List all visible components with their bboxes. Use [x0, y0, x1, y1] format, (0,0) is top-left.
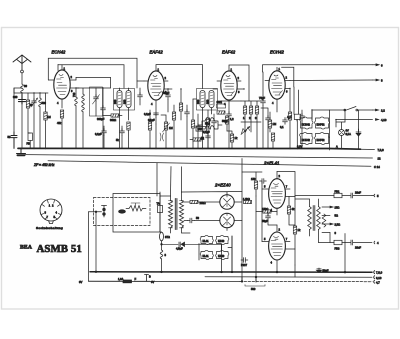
capacitor P137	[241, 258, 248, 263]
tone pot	[322, 214, 326, 227]
svg-text:EL41: EL41	[203, 239, 210, 243]
svg-text:1M: 1M	[273, 122, 277, 126]
svg-text:0,1µF: 0,1µF	[95, 132, 102, 136]
heater cell row2 EAF42	[315, 132, 330, 144]
svg-text:6V: 6V	[346, 129, 349, 133]
resistor R8 box	[217, 104, 226, 108]
capacitor C3	[11, 132, 17, 148]
resistor 1.2k	[244, 200, 252, 203]
capacitor C11	[185, 110, 190, 117]
V8 pins	[262, 225, 295, 272]
wire drop V3 region	[213, 89, 263, 148]
rail to 12	[25, 155, 373, 158]
oscillator box	[90, 87, 103, 116]
transformer top connections	[160, 192, 190, 233]
heater cell EL41 row1	[200, 235, 213, 244]
svg-text:EAF42: EAF42	[317, 122, 325, 126]
svg-text:50µF: 50µF	[262, 219, 268, 223]
svg-text:40k: 40k	[57, 121, 62, 125]
variable capacitor C4	[93, 95, 100, 105]
long wire to terminal 6	[263, 65, 373, 97]
svg-text:500: 500	[251, 287, 256, 291]
resistor R7	[179, 103, 182, 111]
coil L2	[39, 98, 42, 107]
thermistor	[158, 206, 163, 213]
svg-text:EAF42: EAF42	[150, 50, 164, 55]
ground bus top section	[18, 147, 361, 150]
heater cell row2 ECH42	[300, 132, 313, 144]
speaker symbol	[102, 206, 107, 218]
capacitor 50uF	[266, 214, 271, 221]
resistor R4	[111, 114, 119, 117]
resistor 20k	[190, 200, 198, 203]
svg-text:TA: TA	[157, 202, 160, 206]
wire drops misc	[156, 113, 166, 148]
dial lamp	[339, 130, 345, 136]
tube socket diagram	[40, 199, 62, 224]
svg-text:ECH42: ECH42	[270, 50, 285, 55]
svg-text:0,1µF: 0,1µF	[144, 112, 151, 116]
svg-text:4,10: 4,10	[381, 118, 387, 122]
resistor FR box	[28, 133, 32, 141]
top loop wire y58.3	[48, 58, 137, 88]
svg-text:6V: 6V	[151, 280, 154, 284]
resistor R17	[268, 120, 271, 128]
resistor R20	[193, 138, 201, 141]
svg-text:FR2: FR2	[205, 122, 210, 126]
resistor R9	[217, 111, 225, 114]
svg-text:50µF: 50µF	[323, 269, 329, 273]
svg-text:0,1: 0,1	[280, 125, 284, 129]
grid box over V4	[277, 67, 294, 87]
IF transformer T1	[113, 89, 135, 111]
inner loop wire y64.4	[58, 64, 124, 88]
svg-text:150Ω: 150Ω	[262, 207, 268, 211]
heater cell EL41 row2	[200, 250, 213, 259]
coil L3 oscillator	[82, 94, 85, 112]
svg-text:2×EL41: 2×EL41	[263, 161, 279, 166]
capacitor 50nF	[188, 218, 195, 223]
AVC pot diagonal	[241, 127, 250, 135]
resistor 97ohm oval	[160, 232, 164, 241]
svg-text:1,2kΩ: 1,2kΩ	[243, 197, 250, 201]
svg-text:FR3: FR3	[335, 247, 340, 251]
field coil resistor zigzag	[126, 206, 146, 212]
svg-text:EAF42: EAF42	[222, 50, 236, 55]
svg-text:ECH42: ECH42	[52, 50, 67, 55]
tuning capacitor C2 with arrow	[31, 98, 38, 107]
choke coil 8	[161, 244, 163, 250]
svg-text:75pF: 75pF	[259, 96, 265, 100]
resistor R2	[44, 112, 47, 120]
resistor R10	[288, 112, 291, 120]
capacitor C9 750pF	[166, 93, 171, 100]
resistor R6	[172, 112, 175, 120]
volume potentiometer P1	[163, 122, 170, 148]
loop over V3	[229, 65, 249, 101]
AF coupling box	[294, 87, 299, 120]
svg-text:ASMB 51: ASMB 51	[37, 243, 82, 255]
pin digits V4	[272, 67, 288, 105]
capacitor C13	[227, 112, 232, 119]
antenna terminal	[21, 70, 24, 73]
rectifier tube V5 EZ40	[220, 195, 234, 209]
svg-text:750pF: 750pF	[162, 91, 170, 95]
vertical feed wires	[242, 172, 262, 282]
svg-text:1M: 1M	[169, 126, 173, 130]
svg-text:380: 380	[205, 99, 209, 104]
pin stubs V3	[217, 81, 244, 112]
svg-text:6W4: 6W4	[217, 100, 223, 104]
heater wiring verticals	[297, 110, 358, 150]
svg-text:150: 150	[251, 177, 256, 181]
tube V2 EAF42	[148, 71, 164, 100]
tube V1 ECH42	[54, 70, 70, 99]
B junction	[145, 275, 149, 282]
electrolytic 50uF on rail	[317, 268, 321, 272]
heater cell EZ40 row2	[216, 250, 229, 259]
svg-text:500: 500	[42, 101, 47, 105]
chassis ground symbol	[17, 148, 26, 153]
pin digits V3	[224, 68, 240, 107]
output tube V7 EL41	[269, 179, 286, 209]
rectifier plate links	[182, 192, 243, 231]
output tube V8 EL41	[269, 232, 286, 260]
rectifier wires	[184, 202, 242, 221]
capacitor C-ant	[19, 95, 26, 105]
svg-text:A: A	[336, 145, 338, 149]
svg-text:4,5µF: 4,5µF	[176, 247, 183, 251]
svg-text:20nF: 20nF	[355, 246, 361, 250]
svg-text:EZ40: EZ40	[218, 239, 225, 243]
svg-text:300pF: 300pF	[97, 117, 105, 121]
capacitor C10	[154, 111, 159, 118]
svg-text:FR1: FR1	[335, 190, 340, 194]
svg-text:7,8,0: 7,8,0	[378, 148, 385, 152]
resistor R13	[206, 118, 209, 126]
capacitor C5 300pF	[101, 106, 106, 113]
tube V4 ECH42	[269, 71, 285, 99]
capacitor C6 0.1uF	[102, 129, 107, 136]
pickup jack symbol	[160, 133, 164, 141]
svg-text:15Ω: 15Ω	[335, 206, 340, 210]
svg-text:5Ω: 5Ω	[335, 214, 338, 218]
resistor R14	[148, 122, 151, 130]
long wire to terminal 8	[290, 79, 373, 82]
svg-text:0V: 0V	[79, 280, 83, 284]
heater cell row1 ECH42	[300, 117, 313, 129]
resistor box GW	[196, 127, 207, 132]
antenna	[13, 55, 31, 70]
svg-text:Sockelschaltung: Sockelschaltung	[36, 226, 63, 230]
svg-text:0,1µF: 0,1µF	[148, 118, 155, 122]
coupling coil pair row2	[205, 126, 215, 129]
capacitor C14	[300, 114, 305, 121]
grid bus left segment	[13, 88, 15, 93]
svg-text:EL41: EL41	[203, 254, 210, 258]
resistor R12	[191, 120, 194, 128]
wire to terminal 4,10	[336, 119, 373, 121]
wire V1 anode right y77.4	[76, 77, 111, 88]
pin digits V2	[151, 68, 167, 107]
svg-text:2,2: 2,2	[381, 109, 385, 113]
svg-text:12: 12	[378, 157, 382, 161]
resistor bank pins 1-2-3	[243, 106, 246, 114]
resistor R18	[271, 133, 274, 141]
heater bus	[199, 236, 232, 272]
IF transformer T2	[196, 89, 218, 111]
resistor R5	[127, 122, 130, 130]
resistor mid 150ohm	[263, 210, 271, 213]
rail C 7,8,0	[90, 271, 372, 273]
resistor R16 1.2k	[225, 116, 228, 124]
svg-text:380: 380	[122, 99, 126, 104]
svg-text:EAF42: EAF42	[317, 138, 325, 142]
junction dots on rails	[95, 271, 97, 273]
resistor R3	[60, 110, 63, 118]
coil L2b	[75, 97, 78, 106]
pin stubs V1	[48, 65, 79, 108]
heater cell EZ40 row1	[216, 235, 229, 244]
capacitor C17	[196, 124, 201, 131]
svg-text:6,10: 6,10	[376, 276, 382, 280]
resistor R19	[230, 134, 233, 142]
wire antenna down	[21, 73, 23, 84]
capacitor C16 polarized	[356, 129, 361, 136]
power switch S1	[312, 107, 373, 120]
output transformer T4	[308, 206, 321, 231]
capacitor C8	[120, 129, 125, 136]
svg-text:2,5Ω: 2,5Ω	[335, 223, 341, 227]
svg-text:97Ω: 97Ω	[165, 235, 170, 239]
capacitor C18	[212, 119, 217, 126]
svg-text:380: 380	[196, 99, 200, 104]
svg-text:1M: 1M	[47, 115, 51, 119]
rail to C14	[48, 161, 371, 167]
V7 pins	[262, 172, 295, 216]
wire left feed	[88, 212, 90, 281]
svg-text:FR: FR	[27, 142, 31, 146]
wire V2 top to loop	[137, 80, 144, 82]
right side resistors	[287, 206, 290, 214]
capacitor C19	[266, 116, 271, 123]
connecting verticals bottom	[222, 236, 296, 282]
mains transformer T3	[169, 199, 184, 230]
wire OT taps down	[330, 233, 345, 272]
pin stubs V4	[265, 81, 290, 113]
heater cell row1 EAF42	[315, 117, 330, 129]
OT primary connections	[295, 199, 319, 243]
tube V3 EAF42	[221, 71, 237, 100]
rail C 4,7	[89, 280, 241, 282]
capacitor C15	[283, 118, 288, 125]
capacitor C22	[206, 134, 211, 141]
svg-text:700: 700	[72, 92, 76, 97]
pin stubs V2	[144, 65, 203, 110]
svg-text:C 14: C 14	[374, 165, 380, 169]
wire grid bus left	[14, 93, 48, 95]
svg-text:300: 300	[13, 95, 18, 99]
capacitor C12 75pF	[261, 99, 266, 106]
svg-text:P137: P137	[241, 263, 248, 267]
antenna coil L1	[21, 84, 24, 93]
svg-text:B: B	[149, 275, 151, 279]
svg-text:ZF = 452 kHz: ZF = 452 kHz	[33, 163, 55, 167]
svg-text:20kΩ: 20kΩ	[200, 201, 206, 205]
rail C 6,10	[205, 276, 372, 278]
wire	[14, 88, 22, 132]
terminal 4 with FR3	[319, 242, 335, 244]
capacitor 50nF top	[260, 179, 267, 184]
output transformer solid box	[113, 194, 160, 233]
svg-text:4,7: 4,7	[376, 280, 380, 284]
svg-text:2×EZ40: 2×EZ40	[214, 183, 231, 188]
junction dots top section	[21, 87, 359, 150]
secondary taps	[322, 207, 330, 233]
wire into speaker box	[89, 212, 102, 226]
svg-text:BEA: BEA	[20, 245, 32, 251]
pin digits V1	[57, 67, 73, 106]
resistor 150	[254, 181, 257, 189]
coupling coil pair row1	[205, 118, 215, 121]
electrolytic 4.5uF	[161, 244, 163, 246]
500 bracket	[245, 285, 265, 287]
terminal 5 with FR1	[295, 195, 334, 197]
svg-text:0,1A: 0,1A	[346, 132, 352, 136]
V8 pin digits	[264, 228, 288, 265]
svg-text:A,F: A,F	[287, 115, 291, 119]
loudspeaker dashed box	[94, 198, 151, 226]
resistor R1	[26, 100, 29, 108]
B+ feeds from rails down	[157, 159, 295, 197]
svg-text:ECH42: ECH42	[302, 122, 311, 126]
svg-text:1,2: 1,2	[230, 117, 234, 121]
svg-text:7,8,0: 7,8,0	[376, 271, 383, 275]
wire speaker field down	[95, 226, 97, 272]
svg-text:6,3V: 6,3V	[297, 144, 303, 148]
wire coil to ground bus	[21, 93, 23, 149]
svg-text:30kΩ: 30kΩ	[110, 118, 116, 122]
V7 pin digits	[264, 174, 288, 212]
svg-text:380: 380	[113, 99, 117, 104]
svg-text:20nF: 20nF	[355, 191, 361, 195]
capacitor C7	[138, 93, 143, 100]
rectifier tube V6 EZ40	[220, 213, 234, 227]
svg-text:ECH42: ECH42	[302, 138, 311, 142]
